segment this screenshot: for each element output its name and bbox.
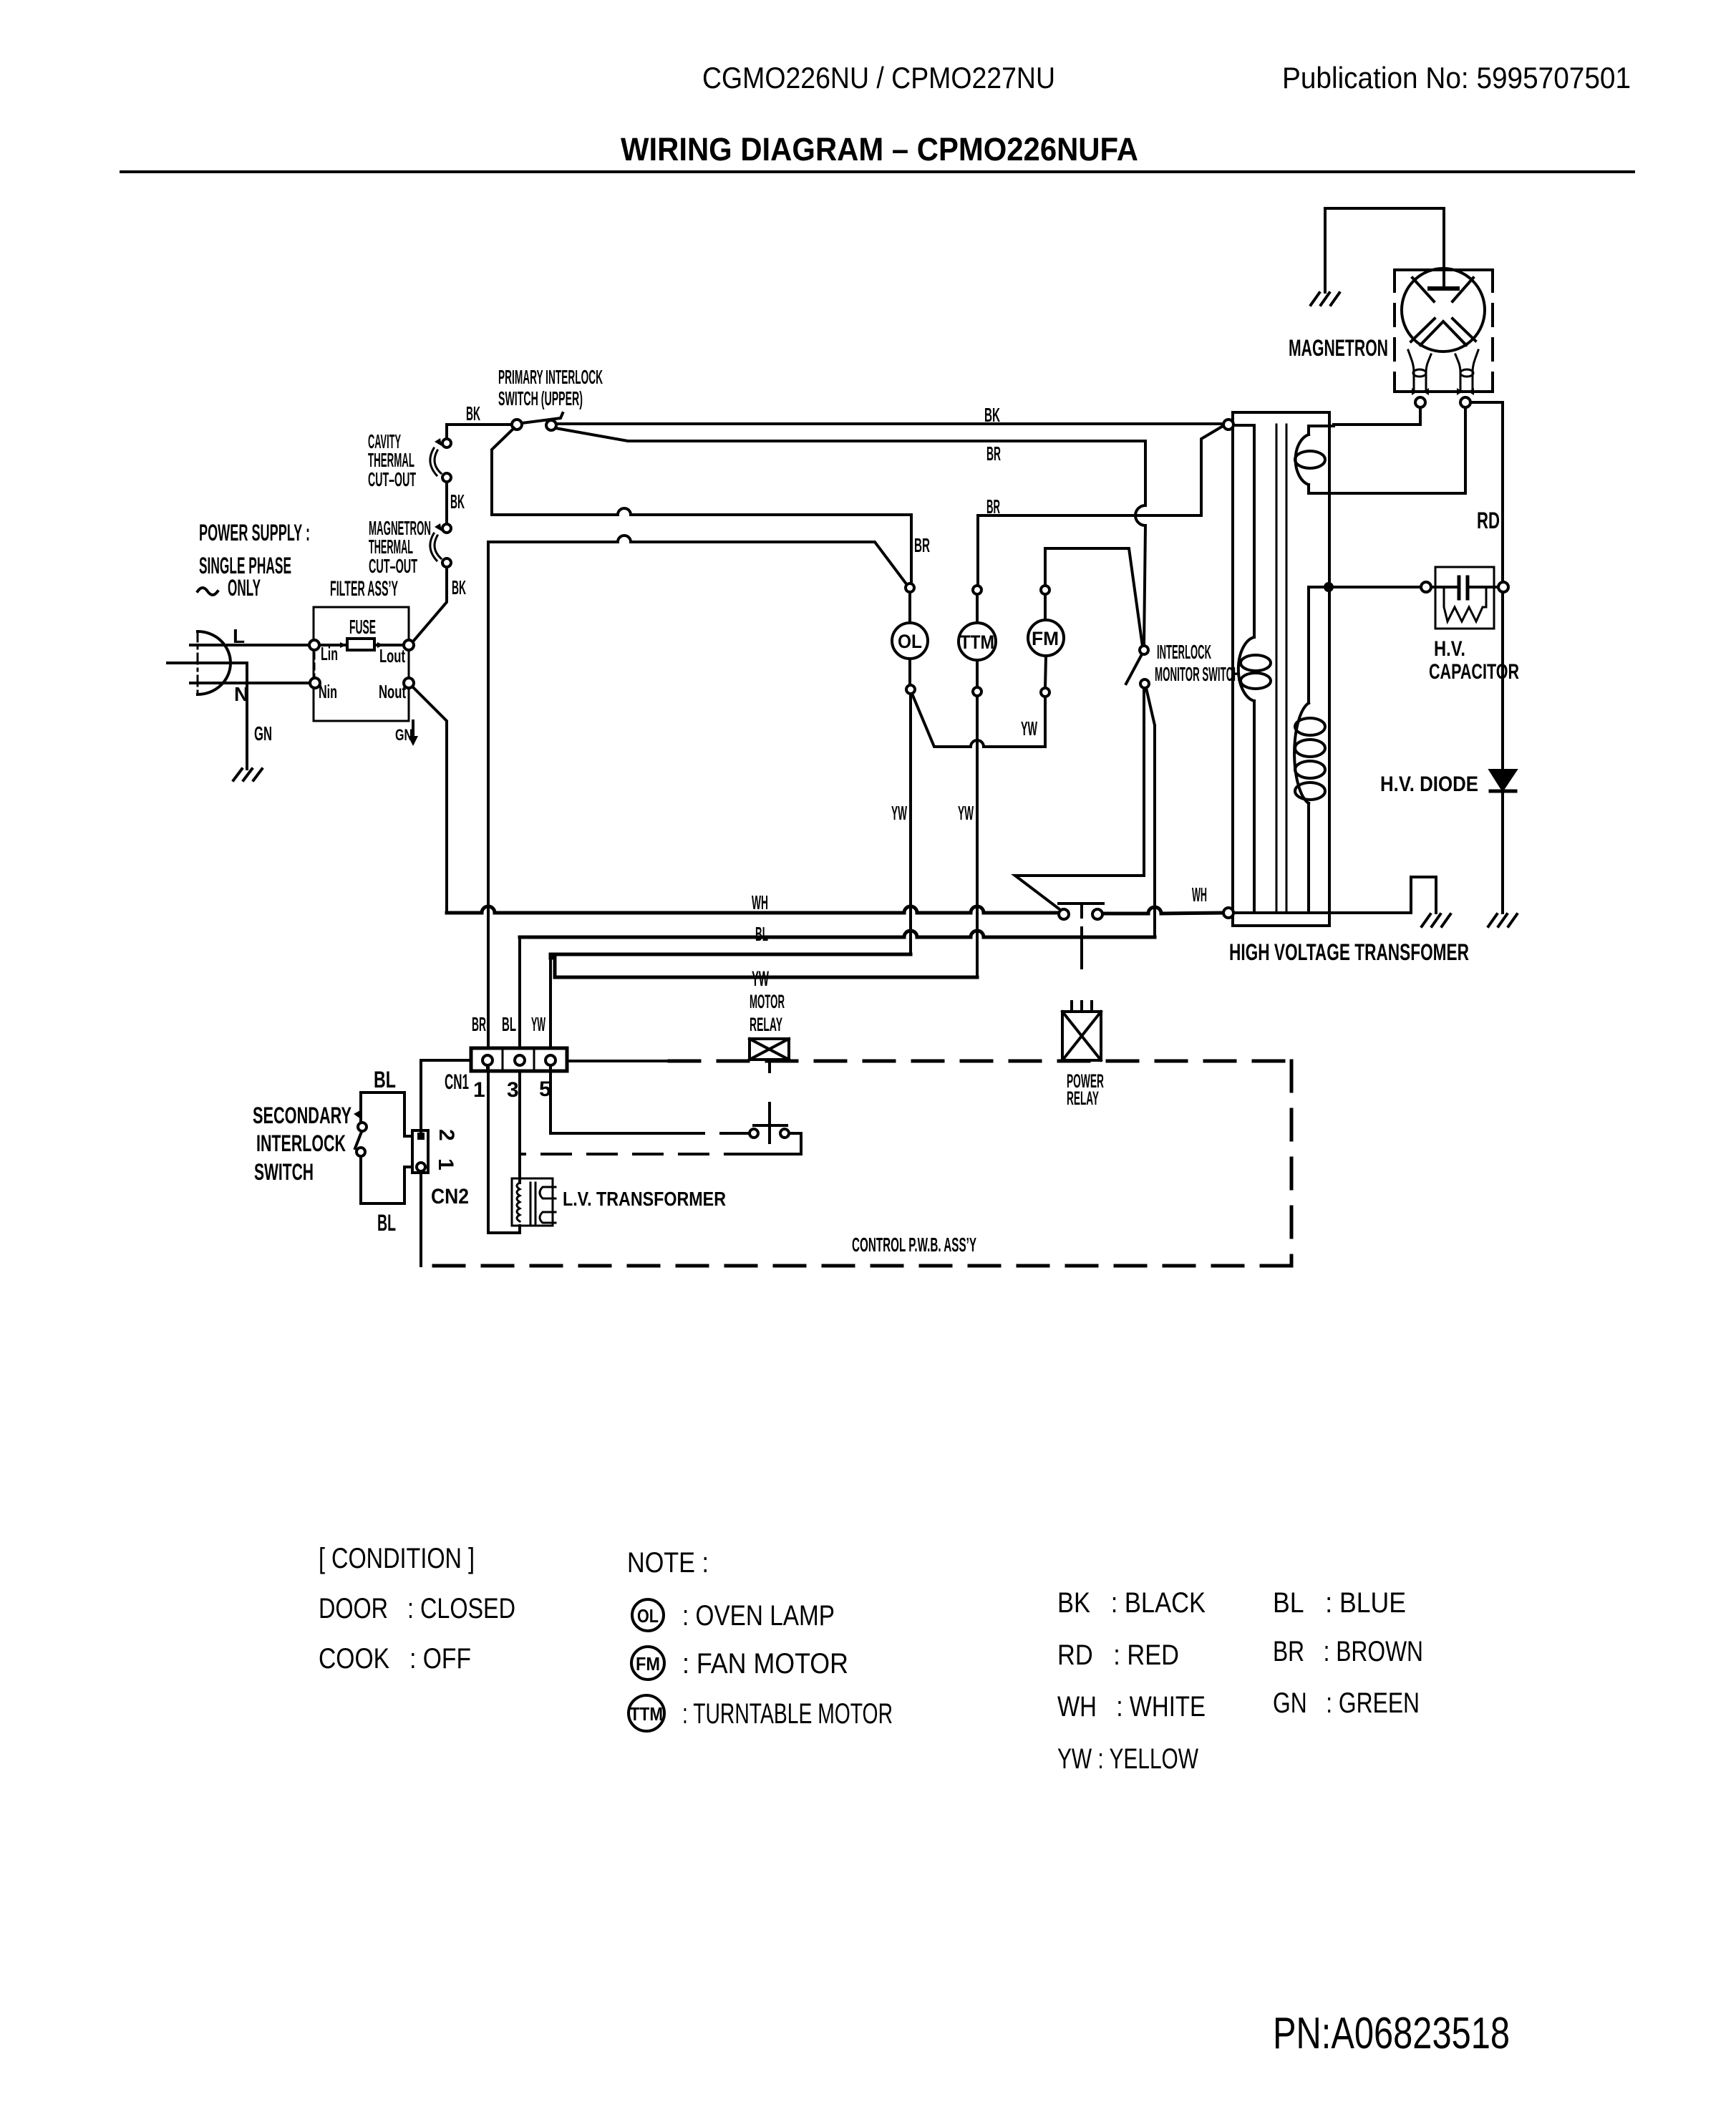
wire BK top riser (445, 425, 448, 439)
svg-text:YW: YW (752, 967, 769, 991)
svg-text:MAGNETRON: MAGNETRON (1289, 335, 1388, 361)
HV transformer bottom pin (1223, 908, 1233, 918)
wire WH to transformer ground step (1329, 877, 1436, 913)
legend colors right (1273, 1587, 1423, 1719)
svg-text:PN:A06823518: PN:A06823518 (1273, 2009, 1510, 2058)
wire fuse (319, 644, 404, 646)
svg-text:BK: BK (466, 402, 480, 425)
magnetron terminals (1415, 397, 1425, 407)
turntable motor TTM bottom contact (973, 687, 981, 696)
label YW (1021, 717, 1037, 740)
svg-text:BK: BK (452, 576, 466, 599)
svg-text:ONLY: ONLY (228, 575, 261, 601)
svg-text:WIRING DIAGRAM – CPMO226NUFA: WIRING DIAGRAM – CPMO226NUFA (621, 131, 1138, 168)
svg-text:TTM: TTM (960, 631, 994, 653)
svg-text:Lin: Lin (321, 643, 338, 664)
power relay contact (1059, 909, 1069, 919)
legend colors left (1057, 1587, 1206, 1775)
legend OL symbol (632, 1599, 664, 1631)
svg-text:H.V.: H.V. (1434, 637, 1465, 661)
svg-text:BR: BR (472, 1013, 486, 1035)
wire OL feed (910, 515, 913, 583)
terminal Lout (404, 640, 414, 650)
wire BR line1 left (492, 508, 911, 515)
wire BK top run to transformer (556, 422, 1223, 425)
svg-text:L: L (233, 625, 245, 647)
svg-text:INTERLOCK: INTERLOCK (256, 1130, 346, 1156)
wire N (190, 682, 310, 684)
terminal Lin (309, 640, 319, 650)
svg-text:BK : BLACK: BK : BLACK (1057, 1587, 1206, 1619)
motor relay label (750, 991, 785, 1035)
svg-text:CGMO226NU / CPMO227NU: CGMO226NU / CPMO227NU (702, 61, 1055, 95)
wire BR monitor line (556, 428, 1145, 441)
svg-text:BL : BLUE: BL : BLUE (1273, 1587, 1406, 1619)
svg-text:1: 1 (473, 1078, 485, 1102)
wire BR line1 right segment (978, 425, 1224, 515)
svg-text:OL: OL (637, 1605, 659, 1627)
legend TTM symbol (629, 1695, 664, 1731)
svg-text:COOK : OFF: COOK : OFF (319, 1643, 471, 1675)
connector CN2 (412, 1130, 428, 1173)
wire motor relay return (754, 1133, 801, 1154)
svg-text:FUSE: FUSE (349, 616, 376, 638)
header model text (621, 61, 1631, 168)
svg-text:CN2: CN2 (431, 1185, 469, 1208)
node N label (234, 683, 248, 705)
HV diode D (1490, 770, 1516, 790)
svg-text:CUT–OUT: CUT–OUT (368, 468, 416, 490)
svg-text:[ CONDITION ]: [ CONDITION ] (319, 1543, 475, 1574)
wire BK to primary interlock (447, 423, 512, 426)
fan motor FM top contact (1044, 548, 1047, 586)
svg-text:CUT–OUT: CUT–OUT (369, 555, 417, 577)
magnetron top wire (1325, 208, 1444, 292)
HV transformer core (1276, 425, 1278, 913)
svg-text:YW : YELLOW: YW : YELLOW (1057, 1743, 1198, 1775)
wire YW FM return jog (1044, 697, 1047, 747)
wire BR to LV primary (488, 1226, 520, 1233)
svg-text:RD : RED: RD : RED (1057, 1639, 1179, 1671)
wire monitor to power relay contact (1015, 688, 1144, 911)
AC tilde symbol (198, 588, 218, 595)
wire BR line2 (489, 536, 907, 585)
CN1 pin 3 (515, 1055, 525, 1065)
svg-text:WH: WH (1192, 883, 1207, 906)
interlock monitor switch (1140, 646, 1148, 654)
svg-text:GN : GREEN: GN : GREEN (1273, 1687, 1420, 1719)
svg-text:YW: YW (891, 802, 907, 824)
junction secondary to capacitor (1324, 582, 1334, 592)
svg-text:NOTE :: NOTE : (627, 1547, 709, 1579)
HV capacitor box (1435, 567, 1494, 629)
primary interlock blade (522, 413, 563, 423)
label BR BL YW above CN1 (472, 1013, 545, 1035)
magnetron dashed box (1395, 268, 1493, 271)
svg-text:Publication No: 5995707501: Publication No: 5995707501 (1282, 61, 1631, 95)
HV transformer filament winding (1309, 425, 1334, 427)
fan motor FM (1044, 594, 1047, 620)
svg-text:OL: OL (898, 631, 922, 652)
HV capacitor bleed resistor (1444, 587, 1486, 621)
magnetron tube (1402, 268, 1485, 352)
legend condition (319, 1543, 515, 1675)
filter assy label (330, 577, 398, 601)
svg-text:YW: YW (1021, 717, 1037, 740)
HV diode label (1380, 772, 1478, 796)
turntable motor TTM top contact (973, 586, 981, 594)
svg-text:BK: BK (984, 404, 1000, 426)
svg-text:MOTOR: MOTOR (750, 991, 785, 1012)
wire TTM feed (976, 515, 979, 586)
filter left edge dash (314, 653, 316, 677)
label BR (986, 442, 1001, 465)
power relay label (1067, 1070, 1104, 1109)
svg-text:: FAN MOTOR: : FAN MOTOR (682, 1648, 848, 1680)
svg-text:POWER SUPPLY :: POWER SUPPLY : (199, 520, 310, 546)
wire BR riser to CN1 pin1 (487, 542, 490, 1055)
svg-text:PRIMARY INTERLOCK: PRIMARY INTERLOCK (498, 366, 603, 388)
svg-text:YW: YW (958, 802, 974, 824)
ground plug GN (233, 769, 262, 780)
svg-text:YW: YW (531, 1013, 545, 1035)
label BK right (984, 404, 1000, 426)
legend note (627, 1547, 709, 1579)
wire Nout to WH riser (413, 687, 447, 913)
HV transformer left pin top (1223, 420, 1233, 430)
HV transformer primary (1233, 424, 1254, 427)
svg-text:Lout: Lout (379, 645, 405, 667)
svg-text:BL: BL (755, 923, 768, 945)
svg-text:BR: BR (986, 442, 1001, 465)
svg-text:: TURNTABLE MOTOR: : TURNTABLE MOTOR (682, 1698, 893, 1730)
HV transformer label (1229, 939, 1469, 965)
magnetron label (1289, 335, 1388, 361)
svg-text:RD: RD (1477, 508, 1500, 533)
wire transformer to HV capacitor (1334, 586, 1421, 588)
ground RD (1488, 914, 1517, 926)
wire FM feed from monitor node (1045, 548, 1143, 646)
motor relay coil (750, 1039, 789, 1060)
svg-text:SWITCH (UPPER): SWITCH (UPPER) (498, 387, 583, 410)
oven lamp OL (908, 592, 911, 623)
LV transformer label (563, 1188, 726, 1210)
wire YW TTM return riser (976, 696, 979, 977)
wire CN2 pin1 to PWB bottom (420, 1171, 422, 1266)
wire BR from interlock common (492, 428, 514, 515)
ground transformer (1422, 914, 1450, 926)
svg-text:H.V. DIODE: H.V. DIODE (1380, 772, 1478, 796)
wire BK mid (445, 482, 448, 524)
wire WH bus (447, 906, 1059, 913)
label BK (452, 576, 466, 599)
control PWB dashed box top (567, 1060, 669, 1062)
svg-text:BR : BROWN: BR : BROWN (1273, 1636, 1423, 1667)
primary interlock switch contacts (512, 420, 522, 430)
svg-text:Nout: Nout (379, 681, 406, 702)
label BK (450, 490, 465, 513)
terminal Nin (310, 678, 320, 688)
label RD (1477, 508, 1500, 533)
interlock monitor switch labels (1155, 641, 1240, 685)
HV capacitor label (1429, 637, 1519, 684)
turntable motor TTM (976, 594, 979, 623)
svg-text:FILTER ASS’Y: FILTER ASS’Y (330, 577, 398, 601)
wire YW to motor relay contact (551, 1065, 675, 1133)
svg-text:1: 1 (434, 1158, 457, 1171)
power supply label (199, 520, 310, 601)
svg-text:RELAY: RELAY (750, 1014, 782, 1035)
LV transformer (512, 1178, 553, 1226)
connector CN1 (471, 1048, 567, 1071)
pin label Lout (379, 645, 405, 667)
HV transformer secondary winding (1309, 586, 1334, 588)
CN1 pin 5 (545, 1055, 556, 1065)
cavity thermal cut-out labels (368, 430, 416, 490)
power relay coil (1072, 1002, 1092, 1012)
oven lamp OL bottom contact (906, 685, 915, 694)
wire L (190, 644, 309, 646)
magnetron filament legs (1408, 350, 1431, 391)
magnetron thermal cut-out labels (369, 517, 431, 577)
label BL (755, 923, 768, 945)
svg-text:N: N (234, 683, 248, 705)
fuse F1 (347, 639, 374, 650)
secondary interlock switch (361, 1093, 412, 1136)
magnetron thermal cut-out switch (442, 524, 451, 533)
svg-text:SECONDARY: SECONDARY (253, 1103, 351, 1128)
wire GN plug center (168, 663, 247, 769)
wire GN chassis arrow (412, 721, 414, 736)
svg-text:BK: BK (450, 490, 465, 513)
wire monitor riser with hop (1144, 441, 1147, 505)
oven lamp OL top contact (906, 583, 914, 592)
svg-text:BR: BR (914, 534, 930, 556)
pin label Nin (319, 681, 337, 702)
svg-text:L.V. TRANSFORMER: L.V. TRANSFORMER (563, 1188, 726, 1210)
wire YW line3 (551, 953, 911, 956)
secondary interlock switch labels (253, 1067, 396, 1236)
node L label (233, 625, 245, 647)
svg-text:GN: GN (395, 726, 412, 744)
label YW (891, 802, 907, 824)
svg-text:Nin: Nin (319, 681, 337, 702)
svg-text:BL: BL (502, 1013, 516, 1035)
control PWB dashed box right (1290, 1061, 1294, 1266)
label BR (986, 495, 1000, 518)
svg-text:WH: WH (752, 891, 768, 914)
svg-text:TTM: TTM (630, 1703, 663, 1725)
svg-text:CN1: CN1 (445, 1070, 469, 1094)
svg-text:2: 2 (435, 1129, 458, 1141)
pin label Lin (321, 643, 338, 664)
label BR at OL (914, 534, 930, 556)
label WH (752, 891, 768, 914)
fan motor FM bottom contact (1041, 688, 1049, 697)
wire YW OL return riser (909, 694, 912, 954)
cavity thermal cut-out switch (442, 439, 451, 447)
part number (1273, 2009, 1510, 2058)
HV capacitor C (1431, 586, 1459, 588)
wire Lout to BK riser (413, 567, 447, 641)
svg-text:: OVEN LAMP: : OVEN LAMP (682, 1600, 835, 1632)
label YW (752, 967, 769, 991)
primary interlock switch (upper) labels (498, 366, 603, 410)
svg-text:3: 3 (507, 1078, 519, 1102)
motor relay contact (750, 1129, 758, 1138)
label BK top (466, 402, 480, 425)
svg-text:INTERLOCK: INTERLOCK (1157, 641, 1211, 663)
svg-text:WH : WHITE: WH : WHITE (1057, 1691, 1206, 1723)
svg-text:SWITCH: SWITCH (254, 1159, 314, 1185)
ground magnetron (1311, 293, 1339, 305)
svg-text:FM: FM (636, 1653, 660, 1675)
svg-text:FM: FM (1032, 628, 1059, 649)
node GN label (254, 722, 272, 745)
svg-text:GN: GN (254, 722, 272, 745)
legend FM symbol (631, 1647, 664, 1680)
svg-text:DOOR : CLOSED: DOOR : CLOSED (319, 1593, 515, 1624)
svg-text:MONITOR SWITCH: MONITOR SWITCH (1155, 663, 1240, 685)
HV capacitor terminals (1421, 582, 1431, 592)
wire RD (1470, 402, 1503, 913)
wire filament right (1334, 407, 1465, 493)
header rule (121, 170, 1634, 173)
pin label Nout (379, 681, 406, 702)
svg-text:CAPACITOR: CAPACITOR (1429, 660, 1519, 684)
plug (198, 631, 231, 694)
control PWB label (852, 1234, 976, 1256)
CN1 labels (445, 1070, 551, 1102)
svg-text:BL: BL (374, 1067, 396, 1093)
wire monitor to BL bus (1146, 688, 1155, 937)
wire filament left (1334, 407, 1420, 425)
wire CN2 pin2 to CN1 (421, 1060, 471, 1133)
fuse label (349, 616, 376, 638)
wire BL bus (518, 937, 521, 1055)
svg-text:CONTROL P.W.B. ASS’Y: CONTROL P.W.B. ASS’Y (852, 1234, 976, 1256)
wire YW line4 (551, 958, 977, 977)
label YW (958, 802, 974, 824)
high voltage transformer box (1233, 412, 1329, 926)
control PWB dashed box bottom (421, 1264, 1291, 1268)
CN1 pin 1 (483, 1055, 493, 1065)
svg-text:BL: BL (377, 1210, 396, 1236)
svg-text:HIGH VOLTAGE TRANSFOMER: HIGH VOLTAGE TRANSFOMER (1229, 939, 1469, 965)
CN2 labels (431, 1129, 469, 1208)
filter assy box (314, 607, 409, 721)
magnetron terminal marks (1412, 388, 1429, 395)
svg-text:RELAY: RELAY (1067, 1087, 1099, 1109)
terminal Nout (404, 678, 414, 688)
